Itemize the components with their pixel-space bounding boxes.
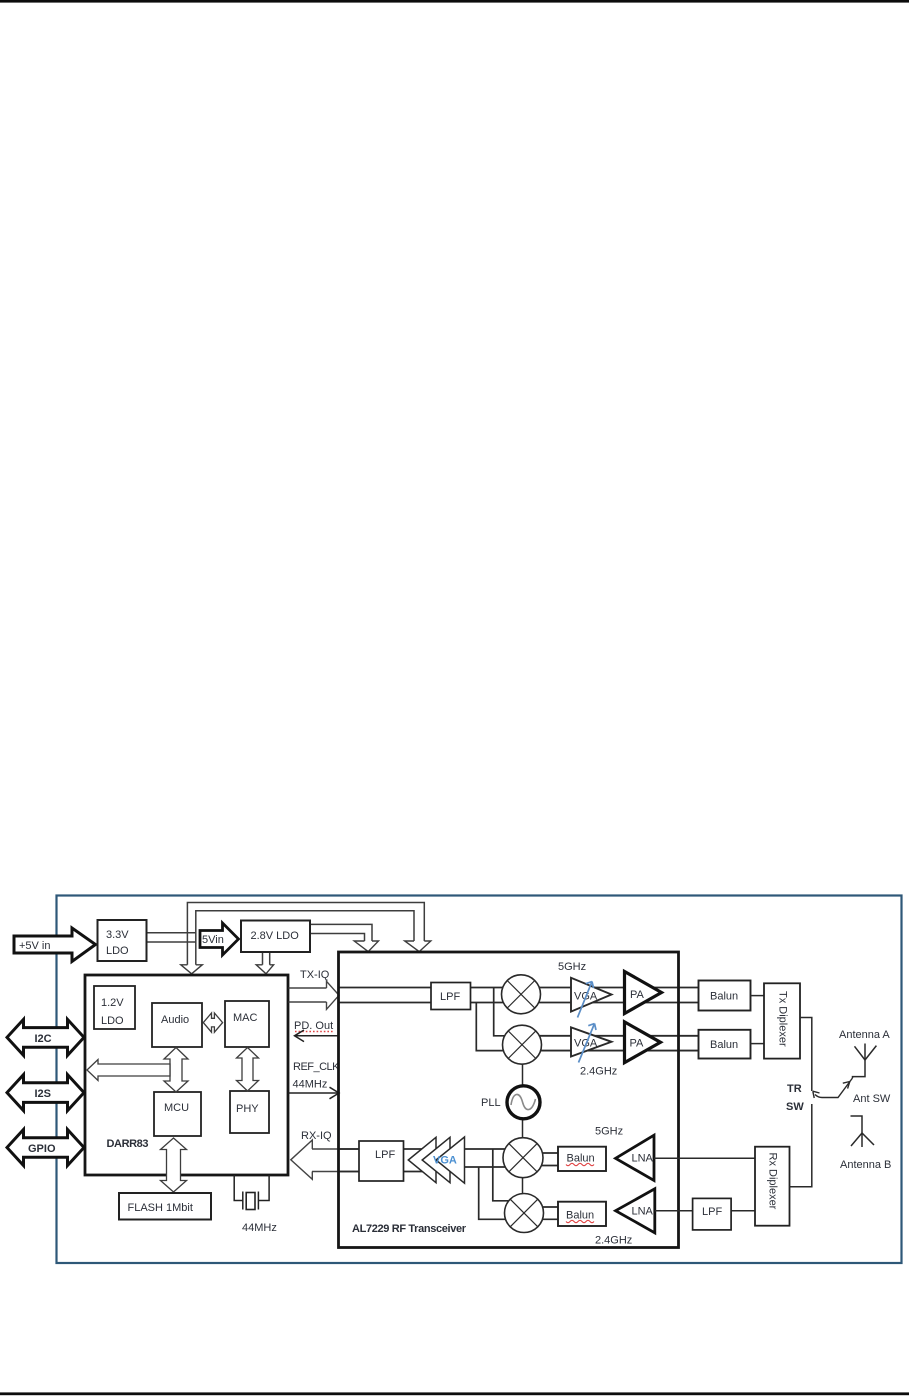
- block arrow 5Vin: [200, 923, 239, 955]
- wire TxDiplexer to switch: [800, 1018, 812, 1092]
- arrowhead into RF box (rail): [405, 941, 431, 952]
- arrowhead RX-IQ: [291, 1140, 313, 1179]
- antenna A symbol: [853, 1044, 877, 1079]
- wire 3.3V LDO output: [147, 933, 196, 942]
- arrow MCU-FLASH: [161, 1138, 187, 1192]
- wire mixerRX2 to BalunRX2 (pair): [536, 1207, 558, 1219]
- block MAC: [225, 1001, 269, 1047]
- crystal 44MHz: [234, 1175, 269, 1210]
- svg-text:Antenna B: Antenna B: [840, 1159, 891, 1171]
- svg-text:LPF: LPF: [702, 1206, 722, 1218]
- svg-text:I2S: I2S: [35, 1088, 52, 1100]
- svg-text:2.8V LDO: 2.8V LDO: [251, 930, 300, 942]
- squiggle BalunRX2: [566, 1220, 594, 1222]
- svg-text:LDO: LDO: [101, 1015, 124, 1027]
- svg-text:Balun: Balun: [710, 991, 738, 1003]
- oscillator PLL: [507, 1086, 540, 1119]
- bus arrow GPIO: [7, 1130, 84, 1166]
- antenna B symbol: [851, 1116, 875, 1147]
- block arrow +5V in: [14, 928, 96, 962]
- svg-text:LDO: LDO: [106, 945, 129, 957]
- amplifier LNA1: [616, 1135, 654, 1180]
- svg-text:1.2V: 1.2V: [101, 997, 124, 1009]
- arrow internal-bus left: [87, 1060, 170, 1081]
- mixer RX 5GHz: [503, 1138, 543, 1178]
- svg-text:PHY: PHY: [236, 1103, 259, 1115]
- diplexer Tx box: [764, 983, 800, 1058]
- svg-text:3.3V: 3.3V: [106, 929, 129, 941]
- wire 3.3V rail to RF (hollow shaft top): [187, 903, 424, 966]
- switch arm TR/ant: [813, 1078, 853, 1098]
- wire LNA1 to RxDiplexer: [654, 1157, 755, 1159]
- wire 2.8V LDO down to DARR83: [263, 952, 270, 965]
- TX I/Q lines chain2: [530, 1036, 699, 1051]
- gain arrow VGA1 (blue): [578, 982, 594, 1018]
- svg-text:Balun: Balun: [567, 1153, 595, 1165]
- mixer RX 2.4GHz: [505, 1194, 544, 1233]
- svg-text:MCU: MCU: [164, 1102, 189, 1114]
- arrowhead into DARR83 (2.8V): [256, 965, 273, 974]
- svg-text:DARR83: DARR83: [107, 1138, 149, 1150]
- svg-text:44MHz: 44MHz: [293, 1079, 328, 1091]
- balun RX1 box: [558, 1147, 606, 1171]
- svg-text:Balun: Balun: [710, 1039, 738, 1051]
- svg-text:Audio: Audio: [161, 1014, 189, 1026]
- TX I/Q lines chain1: [339, 988, 699, 1003]
- svg-text:Tx Diplexer: Tx Diplexer: [777, 991, 789, 1047]
- block Audio: [152, 1003, 202, 1047]
- filter LPF (RX ext): [693, 1198, 732, 1230]
- svg-text:PA: PA: [630, 989, 645, 1001]
- wire mixerRX1 to BalunRX1 (pair): [535, 1153, 558, 1166]
- svg-text:FLASH 1Mbit: FLASH 1Mbit: [128, 1202, 193, 1214]
- svg-text:PA: PA: [630, 1038, 645, 1050]
- svg-text:2.4GHz: 2.4GHz: [580, 1066, 617, 1078]
- svg-text:PLL: PLL: [481, 1097, 501, 1109]
- svg-text:LPF: LPF: [375, 1149, 395, 1161]
- bus arrow I2C: [7, 1019, 84, 1055]
- chip DARR83 box: [85, 975, 288, 1175]
- arrow MAC-PHY: [237, 1048, 259, 1092]
- wire mixerRX1 to mixerRX2: [522, 1177, 524, 1194]
- svg-text:LNA: LNA: [632, 1153, 654, 1165]
- balun RX2 box: [558, 1202, 606, 1226]
- svg-text:Antenna A: Antenna A: [839, 1029, 890, 1041]
- svg-text:44MHz: 44MHz: [242, 1222, 277, 1234]
- arrowhead into DARR83 (3.3V): [181, 965, 203, 974]
- TX split verticals to 2.4G mixer: [476, 988, 512, 1051]
- underline PD. Out (spellcheck): [295, 1031, 334, 1033]
- wire LNA2 to LPF: [655, 1210, 693, 1212]
- RX lines chain1 (VGA to mixer): [339, 1149, 515, 1172]
- filter LPF (TX): [431, 983, 471, 1010]
- bus arrow I2S: [7, 1075, 84, 1111]
- arrowhead into RF box (2.8V): [354, 941, 378, 952]
- page bottom rule: [0, 1392, 909, 1395]
- svg-text:Balun: Balun: [566, 1210, 594, 1222]
- amplifier VGA RX stack: [408, 1137, 464, 1183]
- block PHY: [230, 1091, 269, 1133]
- amplifier PA1: [625, 972, 662, 1014]
- svg-text:LPF: LPF: [440, 991, 460, 1003]
- wire REF_CLK arrow: [289, 1087, 340, 1099]
- amplifier PA2: [625, 1022, 661, 1063]
- wire PD.Out arrow: [295, 1030, 340, 1042]
- svg-text:AL7229 RF Transceiver: AL7229 RF Transceiver: [352, 1223, 467, 1235]
- diplexer Rx box: [755, 1147, 790, 1226]
- svg-text:SW: SW: [786, 1101, 804, 1113]
- chip AL7229 box: [339, 952, 679, 1248]
- balun TX2 box: [699, 1030, 751, 1059]
- wire switch to RxDiplexer: [790, 1104, 812, 1187]
- svg-text:VGA: VGA: [433, 1155, 457, 1167]
- wire BalunTX1 to TxDiplexer: [751, 995, 765, 997]
- svg-text:GPIO: GPIO: [28, 1143, 56, 1155]
- svg-text:5GHz: 5GHz: [595, 1126, 623, 1138]
- memory FLASH 1Mbit box: [119, 1193, 211, 1220]
- svg-text:Ant SW: Ant SW: [853, 1093, 891, 1105]
- arrow Audio-MAC: [203, 1013, 222, 1032]
- wire LPF to RxDiplexer: [731, 1210, 755, 1212]
- regulator 1.2V LDO box: [94, 986, 135, 1029]
- mixer TX 2.4GHz: [503, 1025, 542, 1064]
- wire RX-IQ shaft: [312, 1149, 359, 1172]
- amplifier LNA2: [616, 1189, 655, 1233]
- svg-text:MAC: MAC: [233, 1012, 258, 1024]
- gain arrow VGA2 (blue): [579, 1024, 597, 1063]
- svg-text:LNA: LNA: [632, 1206, 654, 1218]
- svg-text:2.4GHz: 2.4GHz: [595, 1235, 632, 1247]
- svg-text:PD. Out: PD. Out: [294, 1020, 333, 1032]
- wire BalunTX2 to TxDiplexer: [751, 1043, 765, 1045]
- block MCU: [154, 1092, 201, 1136]
- mixer TX 5GHz: [502, 975, 541, 1014]
- svg-text:I2C: I2C: [35, 1033, 52, 1045]
- RX join verticals to 2.4G mixer: [479, 1149, 512, 1219]
- page top rule: [0, 0, 909, 3]
- svg-text:+5V in: +5V in: [19, 940, 51, 952]
- svg-text:5Vin: 5Vin: [202, 934, 224, 946]
- svg-text:5GHz: 5GHz: [558, 961, 586, 973]
- filter LPF (RX in): [359, 1141, 404, 1181]
- amplifier VGA TX1: [571, 978, 612, 1012]
- arrowhead TX-IQ: [327, 981, 340, 1009]
- wire PLL to mixerRX1: [522, 1119, 524, 1138]
- amplifier VGA TX2: [571, 1027, 612, 1056]
- wire mixerTX2 to PLL: [522, 1064, 524, 1086]
- regulator 2.8V LDO box: [241, 921, 310, 953]
- balun TX1 box: [699, 981, 751, 1011]
- svg-text:REF_CLK: REF_CLK: [293, 1061, 340, 1073]
- squiggle BalunRX1: [566, 1163, 594, 1165]
- diagram outer border: [57, 896, 902, 1264]
- wire 2.8V LDO output to RF: [310, 924, 372, 941]
- arrow Audio-MCU: [164, 1048, 188, 1093]
- wire TX-IQ shaft: [289, 988, 327, 1002]
- svg-text:TR: TR: [787, 1083, 802, 1095]
- svg-text:RX-IQ: RX-IQ: [301, 1130, 332, 1142]
- resistor 3.3V LDO box: [98, 920, 147, 961]
- svg-text:TX-IQ: TX-IQ: [300, 969, 330, 981]
- svg-text:Rx Diplexer: Rx Diplexer: [767, 1153, 779, 1210]
